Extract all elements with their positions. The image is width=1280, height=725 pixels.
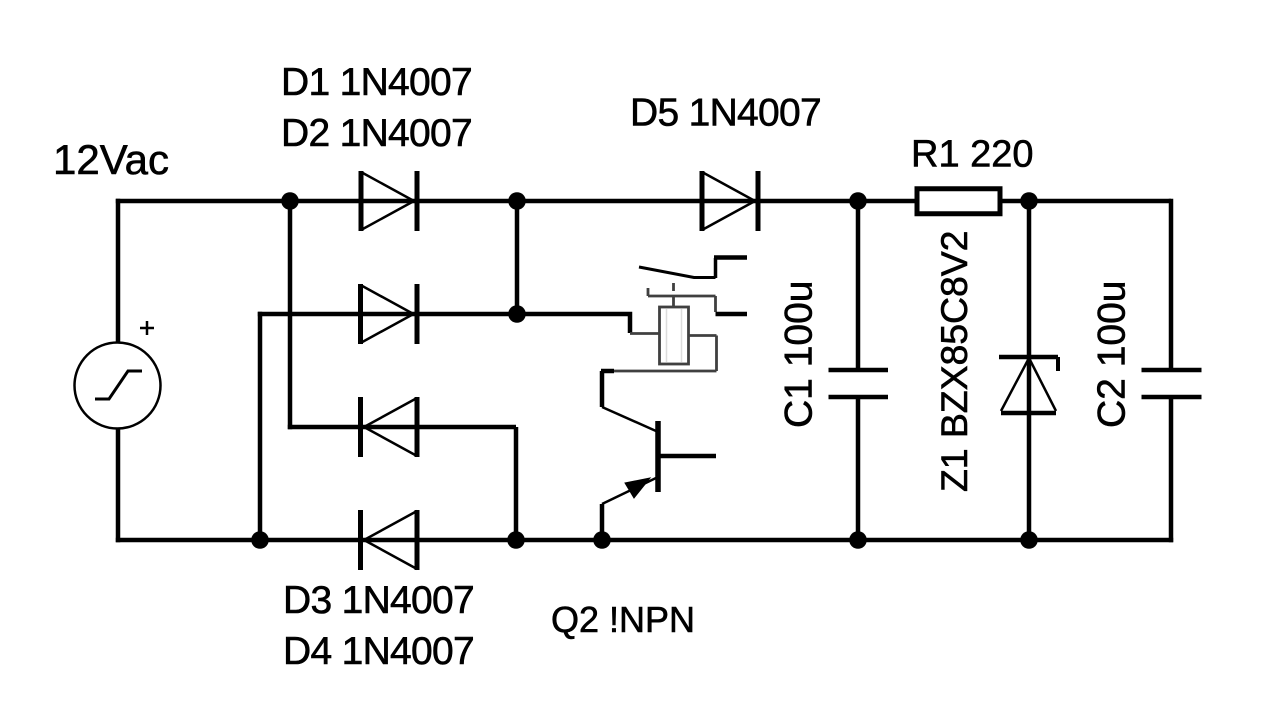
junction bottom rail / C1 [849, 531, 867, 549]
junction bottom rail / Z1 [1020, 531, 1038, 549]
wire D2 row horizontal [258, 312, 517, 317]
svg-text:C2 100u: C2 100u [1091, 281, 1134, 428]
wire relay stub top [714, 255, 747, 260]
relay (ghost) coil and contacts [601, 283, 717, 371]
junction top rail / Z1 [1020, 192, 1038, 210]
junction bottom rail / D3 branch [507, 531, 525, 549]
wire node A vertical x290 top rail to D3 row [288, 201, 293, 429]
wire left vertical (source top) [116, 199, 121, 344]
svg-text:12Vac: 12Vac [53, 136, 169, 183]
svg-text:Z1 BZX85C8V2: Z1 BZX85C8V2 [933, 231, 975, 492]
junction top rail / C1 [849, 192, 867, 210]
diode D4 (points left) [361, 510, 418, 570]
wire zener column vertical [1027, 201, 1032, 540]
relay switch throw contact vertical [714, 258, 718, 278]
wire bottom rail [116, 538, 1173, 543]
svg-text:D2 1N4007: D2 1N4007 [281, 112, 472, 155]
svg-text:D4 1N4007: D4 1N4007 [283, 630, 474, 673]
wire top rail [116, 199, 1171, 204]
wire D2 row to relay coil (black part) [517, 314, 630, 333]
wire D2 left vertical down to bottom rail [258, 312, 263, 540]
svg-text:Q2 !NPN: Q2 !NPN [551, 599, 695, 640]
junction top rail / D1 cathode column [508, 192, 526, 210]
svg-text:D3 1N4007: D3 1N4007 [283, 579, 474, 622]
zener diode Z1 [999, 357, 1058, 413]
wire D3 row horizontal [288, 425, 516, 430]
wire left vertical (source bottom) [116, 427, 121, 542]
diode D5 [702, 171, 758, 231]
wire C2 bottom vertical [1169, 397, 1174, 542]
svg-text:D5 1N4007: D5 1N4007 [630, 92, 821, 135]
wire x517 vertical top rail to D2 row [515, 201, 520, 314]
wire C2 top vertical [1169, 199, 1174, 370]
junction D2 row / relay feed [508, 305, 526, 323]
svg-text:D1 1N4007: D1 1N4007 [281, 61, 472, 104]
diode D3 (points left) [361, 397, 418, 457]
svg-text:C1 100u: C1 100u [778, 281, 821, 428]
transistor Q2 [602, 371, 716, 540]
wire C1 bottom vertical [856, 397, 861, 540]
diode D1 [361, 171, 417, 231]
svg-text:R1 220: R1 220 [911, 134, 1034, 176]
junction top rail / D1-D2 branch [281, 192, 299, 210]
voltage source V1 12Vac circle [75, 321, 161, 429]
junction bottom rail / Q2 emitter [593, 531, 611, 549]
relay switch blade [639, 267, 716, 278]
capacitor C2 [1142, 370, 1202, 397]
diode D2 [361, 284, 418, 344]
capacitor C1 [829, 370, 889, 397]
wire relay stub bottom [716, 312, 748, 317]
junction bottom rail / D2 branch [251, 531, 269, 549]
wire D3 right vertical down to bottom rail [514, 427, 519, 540]
resistor R1 [917, 189, 1000, 214]
wire C1 top vertical [856, 201, 861, 370]
